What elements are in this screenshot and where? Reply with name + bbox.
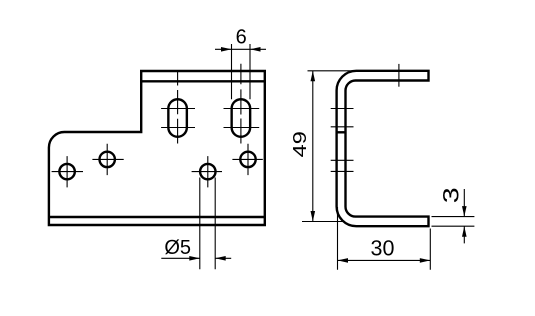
side view profile <box>337 71 429 226</box>
svg-text:49: 49 <box>290 131 310 157</box>
svg-text:6: 6 <box>236 26 247 48</box>
dimension 6 arrow left <box>221 47 232 52</box>
dimension 6 arrow right <box>250 47 261 52</box>
hole B centerlines <box>92 144 123 175</box>
side view top flange tick mark <box>398 64 400 87</box>
dimension 3 line <box>463 189 465 243</box>
hole D centerlines <box>232 144 262 175</box>
slot S1 left obround <box>168 99 187 137</box>
side view web hole tick marks <box>331 109 354 172</box>
dimension Ø5 arrow left <box>189 256 200 261</box>
dimension 30 line <box>338 259 431 261</box>
hole D circle <box>240 152 255 167</box>
front view top bend line <box>141 80 265 82</box>
dimension 3 arrow top <box>462 206 467 217</box>
dimension 3 extension lines <box>432 217 475 227</box>
dimension 6 extension lines <box>232 44 251 99</box>
svg-text:30: 30 <box>371 236 395 260</box>
front view bottom bend line <box>49 216 265 218</box>
dimension 30 arrow right <box>420 258 431 263</box>
dimension 30 extension lines <box>338 207 431 270</box>
dimension 49 arrow top <box>311 71 316 82</box>
dimension Ø5 arrow right <box>215 256 226 261</box>
front view outline <box>49 71 265 225</box>
slot S2 centerlines <box>224 64 260 144</box>
hole A circle <box>59 164 74 179</box>
dimension Ø5 line <box>161 257 231 259</box>
dimension 3 arrow bottom <box>462 226 467 237</box>
hole C centerlines <box>192 156 222 187</box>
hole C circle <box>200 164 215 179</box>
hole B circle <box>100 152 115 167</box>
svg-text:3: 3 <box>440 187 464 203</box>
side view step edge <box>337 131 346 133</box>
hole A centerlines <box>52 156 83 187</box>
dimension 49 arrow bottom <box>311 211 316 222</box>
slot S2 right obround <box>232 99 251 137</box>
svg-text:Ø5: Ø5 <box>164 237 191 259</box>
dimension 6 line <box>215 48 266 50</box>
slot S1 centerlines <box>161 72 195 144</box>
dimension Ø5 extension lines <box>200 178 215 270</box>
dimension 49 extension lines <box>302 71 357 222</box>
dimension 49 line <box>312 71 314 222</box>
dimension 30 arrow left <box>338 258 349 263</box>
